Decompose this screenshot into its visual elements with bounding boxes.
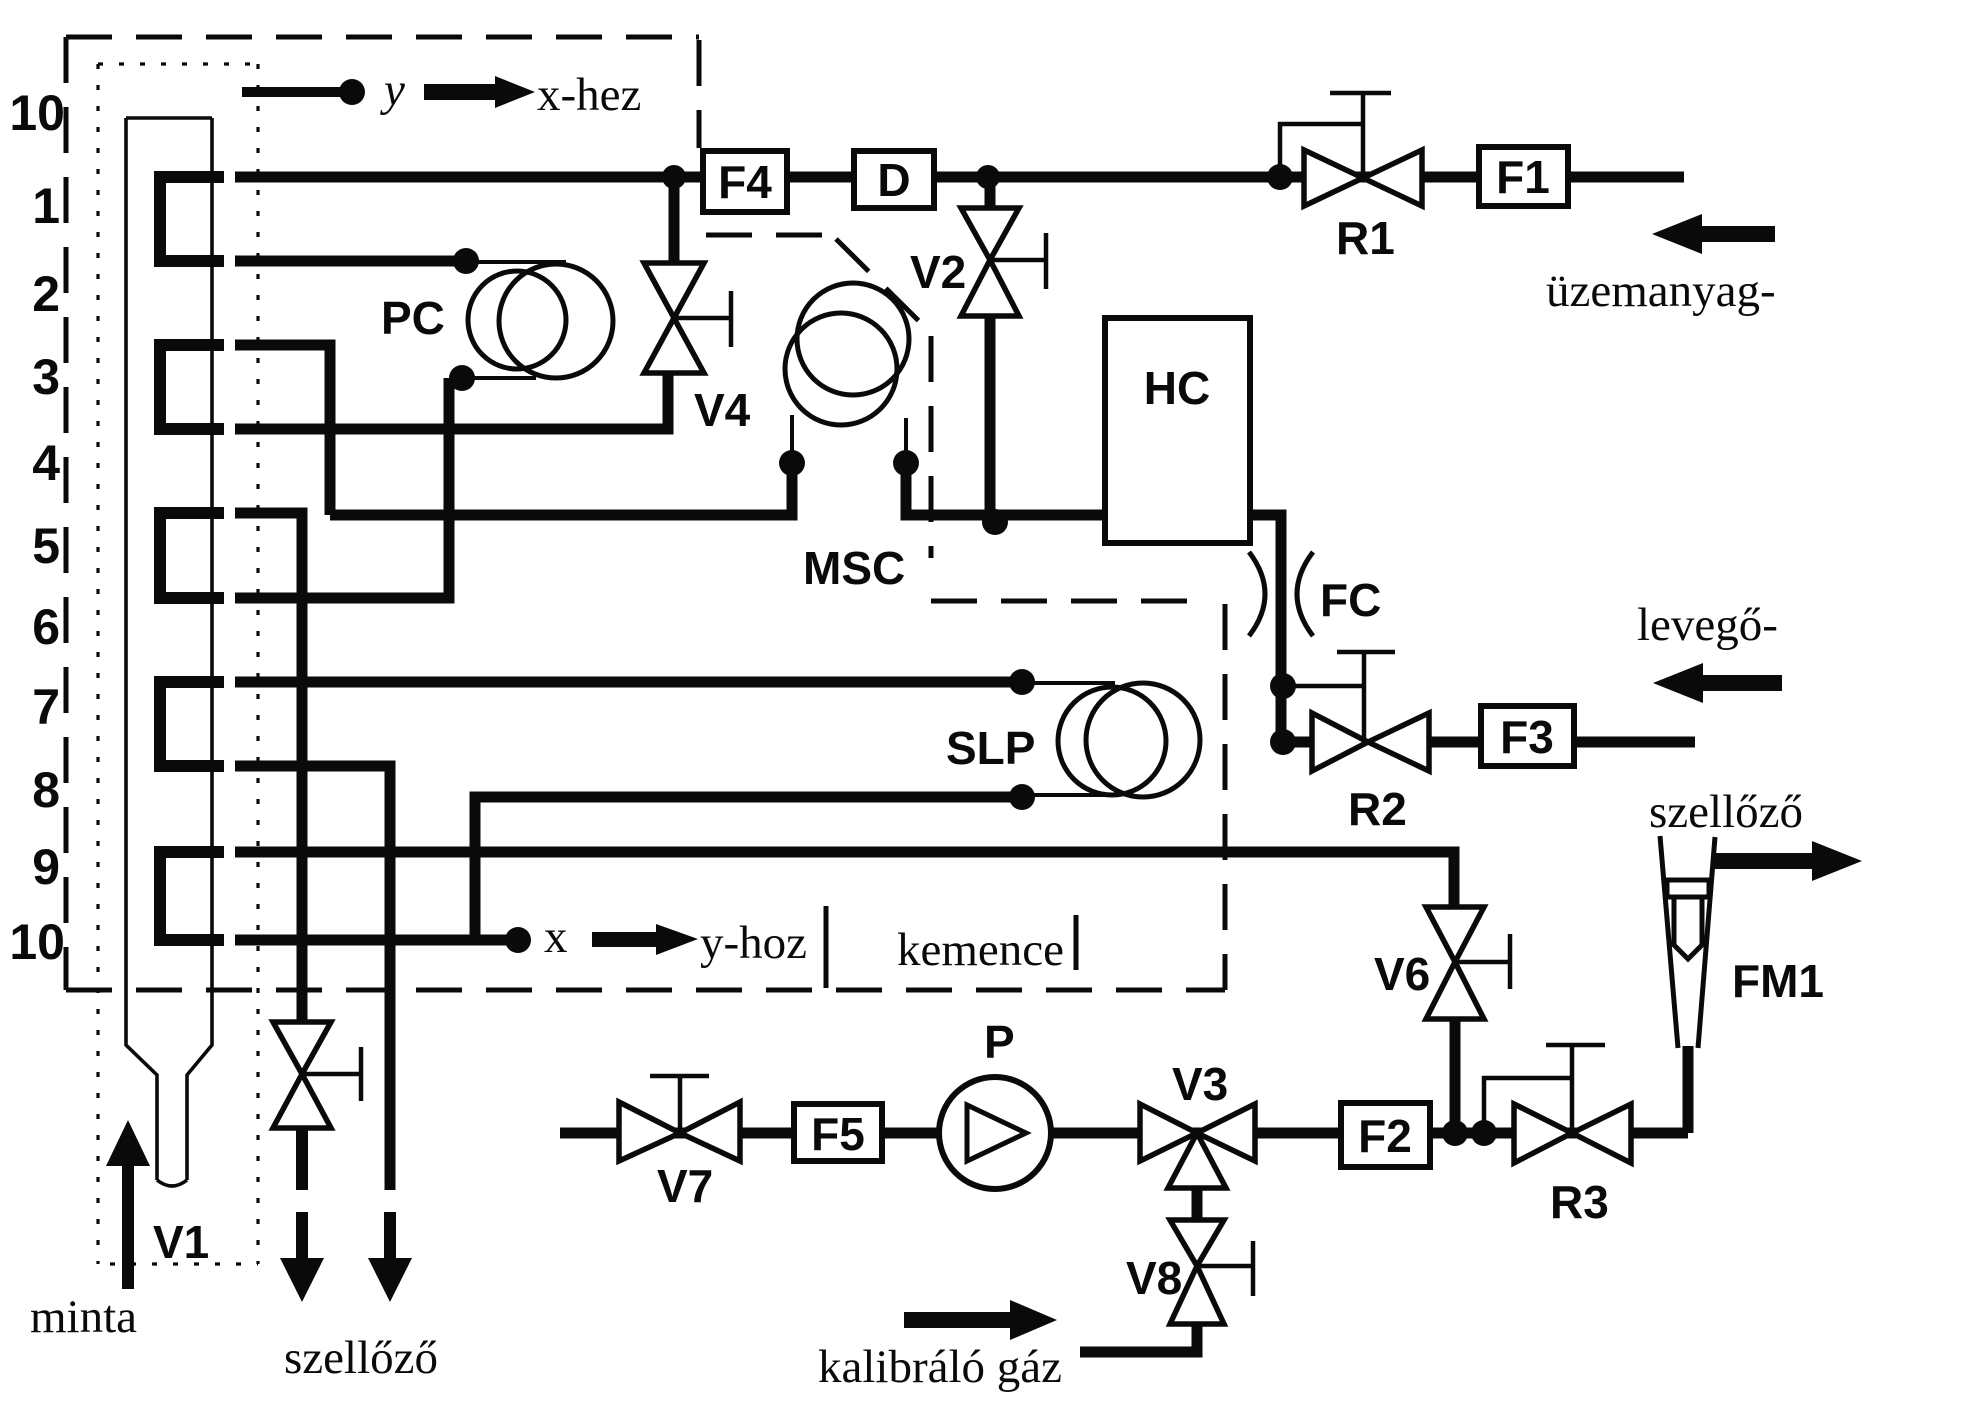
arrow szellozo right [1712, 841, 1862, 881]
V1 port loop 3-4 [160, 345, 224, 429]
junction dot PC outlet [449, 365, 475, 391]
svg-text:1: 1 [32, 178, 60, 234]
valve V6 [1426, 907, 1510, 1019]
sample-valve dotted enclosure around V1 [98, 64, 258, 1264]
wire port5 to vent valve line [235, 513, 302, 1022]
V1 port loop 1-2 [160, 177, 224, 261]
svg-text:F1: F1 [1496, 151, 1550, 203]
wire MSC feed line to MSC left tail [330, 463, 792, 515]
arrow kalibralo gaz in [904, 1300, 1057, 1340]
box F3 [1481, 706, 1574, 766]
wire port8 down to vent B [235, 766, 390, 1190]
wire port4 to V4 bottom [235, 370, 668, 429]
junction dot R2 bracket [1270, 673, 1296, 699]
svg-text:F3: F3 [1500, 711, 1554, 763]
svg-text:SLP: SLP [946, 722, 1035, 774]
svg-text:3: 3 [32, 349, 60, 405]
svg-text:R2: R2 [1348, 783, 1407, 835]
valve V2 [961, 208, 1046, 316]
V1 port loop 9-10 [160, 852, 224, 940]
svg-text:D: D [877, 154, 910, 206]
junction dot SLP outlet [1009, 784, 1035, 810]
junction dot R1 bracket [1267, 164, 1293, 190]
svg-text:V7: V7 [657, 1160, 713, 1212]
svg-text:szellőző: szellőző [1649, 786, 1803, 838]
V1 port loop 5-6 [160, 513, 224, 598]
svg-text:PC: PC [381, 292, 445, 344]
svg-text:MSC: MSC [803, 542, 905, 594]
coil MSC [785, 283, 909, 463]
svg-text:levegő-: levegő- [1637, 599, 1778, 651]
arrow minta inlet [106, 1120, 150, 1289]
svg-text:minta: minta [30, 1291, 137, 1343]
svg-text:9: 9 [32, 839, 60, 895]
box D [854, 151, 934, 208]
svg-text:2: 2 [32, 266, 60, 322]
junction dot SLP inlet [1009, 669, 1035, 695]
svg-text:x-hez: x-hez [537, 69, 641, 121]
wire R2 to F3 and air inlet [1429, 737, 1695, 748]
svg-text:V2: V2 [910, 246, 966, 298]
valve V4 [644, 263, 731, 373]
svg-text:P: P [984, 1016, 1015, 1068]
svg-text:10: 10 [9, 914, 65, 970]
arrow vent B [368, 1190, 412, 1302]
box F5 [794, 1104, 882, 1161]
box F1 [1479, 147, 1568, 206]
wire V8 to calibration gas inlet [1080, 1326, 1197, 1352]
svg-text:F5: F5 [811, 1108, 865, 1160]
flow restrictor FC [1249, 552, 1313, 636]
vent valve on port5 line [273, 1022, 361, 1128]
junction dot V2-HC line [982, 509, 1008, 535]
wire port6 up to PC outlet [235, 378, 449, 598]
wire V4 top branch [669, 177, 680, 265]
svg-text:szellőző: szellőző [284, 1332, 438, 1384]
wire port9 to V6 [235, 852, 1454, 907]
valve R1 pressure regulator [1280, 93, 1422, 206]
wire port10 to node x [235, 935, 518, 946]
svg-text:FM1: FM1 [1732, 955, 1824, 1007]
wire bottom main line V7..R3 [560, 1128, 1688, 1139]
svg-text:10: 10 [9, 85, 65, 141]
svg-text:R1: R1 [1336, 212, 1395, 264]
svg-text:FC: FC [1320, 574, 1381, 626]
node x dot [505, 927, 531, 953]
valve R2 pressure regulator [1283, 652, 1429, 771]
valve R3 pressure regulator [1484, 1045, 1631, 1163]
box F2 [1341, 1103, 1430, 1167]
wire MSC right tail to HC [906, 463, 1105, 515]
svg-text:üzemanyag-: üzemanyag- [1546, 265, 1776, 317]
pump P [939, 1077, 1051, 1189]
wire HC outlet down through FC to R2 [1250, 515, 1312, 742]
arrow x to y-hoz [592, 924, 698, 955]
junction dot MSC right [893, 450, 919, 476]
svg-text:V6: V6 [1374, 948, 1430, 1000]
svg-text:kalibráló gáz: kalibráló gáz [818, 1341, 1062, 1393]
valve V7 [619, 1076, 740, 1161]
svg-text:V4: V4 [694, 384, 751, 436]
svg-text:4: 4 [32, 435, 60, 491]
coil SLP [1022, 683, 1200, 797]
flow meter FM1 rotameter [1660, 836, 1715, 1048]
valve V1 column body [126, 118, 212, 1186]
junction dot R2 inlet [1270, 729, 1296, 755]
svg-text:6: 6 [32, 599, 60, 655]
wire SLP outlet to port10 line [475, 797, 1022, 940]
arrow levego in [1653, 663, 1782, 703]
node y dot [339, 79, 365, 105]
wire V2 top branch [985, 177, 996, 210]
svg-text:7: 7 [32, 679, 60, 735]
arrow y to x-hez [424, 76, 535, 108]
valve V8 [1170, 1220, 1253, 1324]
wire R3 to FM1 riser [1683, 1046, 1694, 1133]
box F4 [703, 151, 787, 212]
svg-text:y-hoz: y-hoz [700, 917, 807, 969]
svg-text:V8: V8 [1126, 1252, 1182, 1304]
wire V3 down stub to V8 [1192, 1188, 1203, 1222]
svg-text:V1: V1 [153, 1216, 209, 1268]
svg-text:F2: F2 [1358, 1110, 1412, 1162]
svg-text:V3: V3 [1172, 1058, 1228, 1110]
svg-text:F4: F4 [718, 156, 772, 208]
svg-text:HC: HC [1144, 362, 1210, 414]
valve V3 three-way [1140, 1104, 1255, 1188]
junction node above V2 [976, 165, 1000, 189]
box HC [1105, 318, 1250, 543]
svg-text:y: y [380, 64, 405, 116]
coil PC [462, 262, 613, 378]
junction dot V6 bottom [1442, 1120, 1468, 1146]
junction dot MSC left [779, 450, 805, 476]
arrow uzemanyag in [1652, 214, 1775, 254]
svg-text:R3: R3 [1550, 1176, 1609, 1228]
svg-text:8: 8 [32, 762, 60, 818]
svg-text:5: 5 [32, 518, 60, 574]
wire port2 to PC inlet [235, 256, 466, 267]
junction dot port2-PC [453, 248, 479, 274]
kemence tick right [1074, 915, 1079, 970]
node y legend line [242, 87, 345, 97]
junction dot R3 bracket [1471, 1120, 1497, 1146]
oven boundary dashed box (kemence zone) [66, 37, 1225, 990]
kemence tick left [824, 906, 829, 988]
wire port3 down to MSC feed line [235, 345, 330, 515]
svg-text:x: x [544, 911, 568, 963]
wire port7 to SLP inlet [235, 677, 1022, 688]
svg-text:kemence: kemence [897, 924, 1064, 976]
junction node above V4 [662, 165, 686, 189]
wire port1 to F4/D/R1/F1 main top line [235, 172, 1684, 183]
arrow vent A [280, 1129, 324, 1302]
wire V6 down to bottom line [1450, 1019, 1461, 1133]
wire V2 bottom to HC feed line [985, 316, 996, 515]
V1 port loop 7-8 [160, 682, 224, 766]
